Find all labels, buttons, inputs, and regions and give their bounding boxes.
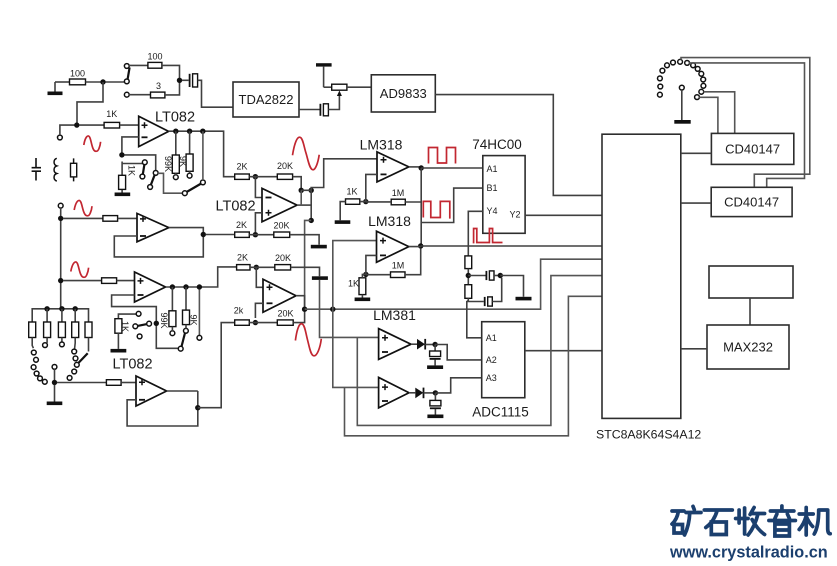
wire LM318-1 out to node F xyxy=(409,166,421,168)
wire SW3 wiper to ground G13 xyxy=(681,90,683,120)
wire row4 2k to 20K xyxy=(249,322,277,324)
switch SW1 contact common xyxy=(124,79,129,84)
wire amp2 feedback loop xyxy=(114,235,203,257)
watermark Chinese title (drawn glyphs) xyxy=(672,506,830,536)
rotary switch SW2 wiper xyxy=(52,365,57,370)
wire N7 to wiper contact xyxy=(124,155,155,171)
capacitor C1 (coupling) xyxy=(190,74,198,87)
wire row4 20K to bus node D xyxy=(293,312,304,323)
wire N18 down to diff2 plus xyxy=(256,267,263,287)
svg-text:2k: 2k xyxy=(234,306,244,316)
svg-text:2K: 2K xyxy=(236,220,247,230)
ground G4 under 1K2 xyxy=(111,333,127,352)
wire N9 to row2 2K xyxy=(206,234,235,236)
capacitor C4 xyxy=(486,271,494,280)
wire N1 down to amp1 input node xyxy=(77,82,103,123)
node M xyxy=(433,390,438,395)
wire J2 down through ch3 to ladder bus xyxy=(60,208,62,309)
switch lever b xyxy=(151,175,155,185)
op-amp LT082 U1B xyxy=(137,213,169,241)
switch contact d4 xyxy=(137,334,142,339)
wire ADC out to MCU xyxy=(525,350,602,352)
resistor 1K (LM318-1) xyxy=(346,187,360,205)
wire N15 to R ch4 xyxy=(57,382,106,384)
switch contact b2 xyxy=(148,185,153,190)
wire SW3 contact to CD40147-2 (inner) xyxy=(689,63,804,187)
resistor chain R-b (vertical) xyxy=(465,285,472,299)
rotary switch SW2 contact r12 xyxy=(72,369,77,374)
svg-text:20K: 20K xyxy=(275,253,291,263)
wire N2 to cap C1 xyxy=(182,79,189,81)
resistor R (input LC) xyxy=(71,158,77,181)
wire bottom contact to R3 xyxy=(129,94,150,96)
wire SW3 contact to CD40147-1 pin b xyxy=(699,97,718,133)
wire 1M2 right up to node H xyxy=(405,248,421,274)
ground G1 top-left xyxy=(48,82,63,95)
svg-text:1M: 1M xyxy=(392,261,405,271)
wire B1 branch xyxy=(421,188,483,222)
node N3 amp1 input xyxy=(74,122,79,127)
svg-text:2K: 2K xyxy=(237,253,248,263)
op-amp LT082 U3A diff1 xyxy=(215,188,297,221)
IC CD40147 #2 xyxy=(711,187,792,216)
node D xyxy=(302,307,307,312)
wire N16 down to diff1 minus xyxy=(255,177,262,198)
IC CD40147 #1 xyxy=(711,133,793,164)
svg-text:99K: 99K xyxy=(163,156,173,172)
resistor 2K row2 xyxy=(235,220,250,237)
op-amp LM381 U7 xyxy=(379,377,409,408)
resistor 2K row1 xyxy=(235,162,250,180)
node N15 xyxy=(52,380,57,385)
rotary switch SW2 contact r2 xyxy=(34,357,39,362)
svg-text:1K: 1K xyxy=(106,109,117,119)
resistor 2k row4 xyxy=(234,306,250,326)
node N5 xyxy=(187,129,192,134)
wire chain node xyxy=(467,269,469,285)
resistor 20K row2 xyxy=(273,221,289,238)
svg-text:20K: 20K xyxy=(273,221,289,231)
svg-text:CD40147: CD40147 xyxy=(725,142,780,157)
resistor 100 (range hi) xyxy=(147,52,162,69)
capacitor C2 (output coupling) xyxy=(320,104,328,116)
wire G7 riser down to LM381-1 plus xyxy=(320,280,379,338)
wire AD9833 to MCU xyxy=(435,95,602,196)
capacitor C7 (electrolytic) xyxy=(430,393,441,415)
rotary switch SW2 lever xyxy=(79,353,88,363)
resistor 1K (amp1 gain, vertical) xyxy=(119,162,137,193)
switch contact d3 xyxy=(147,321,152,326)
switch contact e2 xyxy=(178,346,183,351)
wire amp4 feedback loop xyxy=(127,391,198,426)
ground G2 above pot xyxy=(316,63,332,87)
svg-text:1M: 1M xyxy=(392,188,405,198)
wire N1 to switch common xyxy=(105,81,124,83)
switch contact c2 xyxy=(201,180,206,185)
rotary switch SW2 contact r7 xyxy=(42,379,47,384)
op-amp LM381 U6 xyxy=(373,307,416,359)
glyph kuang xyxy=(672,506,701,535)
ladder bus wire xyxy=(32,309,88,322)
wire connector to MAX232 xyxy=(749,298,751,325)
wire C1 to TDA2822 xyxy=(198,80,233,107)
ground G5 under rotary xyxy=(47,385,63,405)
node K xyxy=(498,273,503,278)
rotary switch SW2 contact r4 xyxy=(34,371,39,376)
rotary switch SW2 contact r13 xyxy=(67,376,72,381)
wire row2 20K to ground G6 xyxy=(290,235,319,245)
ground G7 xyxy=(312,276,328,280)
resistor 1M (LM318-1) xyxy=(366,188,406,205)
switch SW1 contact bottom xyxy=(124,92,129,97)
SECTION-LEFT xyxy=(29,109,237,426)
switch contact a2 xyxy=(140,174,145,179)
op-amp LT082 U2A xyxy=(135,272,166,302)
sine wave ch1 (red) xyxy=(84,136,101,151)
wire R to amp4 + xyxy=(121,382,136,384)
capacitor C6 (electrolytic) xyxy=(430,345,441,366)
ladder resistor LR2 xyxy=(44,309,51,343)
resistor 20K row3 xyxy=(275,253,291,270)
rotary switch SW2 contact r10 xyxy=(73,356,78,361)
svg-text:LM318: LM318 xyxy=(368,213,411,229)
svg-text:LT082: LT082 xyxy=(215,199,255,215)
op-amp LM318 U5 xyxy=(368,213,411,262)
wire C2 to pot wiper arrow xyxy=(328,94,339,110)
wire node E up to LM318-2 plus xyxy=(333,241,377,310)
svg-text:STC8A8K64S4A12: STC8A8K64S4A12 xyxy=(596,428,701,442)
diode D2 xyxy=(409,388,424,399)
square wave A (red) xyxy=(429,148,456,164)
svg-text:1K: 1K xyxy=(127,165,137,176)
wire wiper to lever c xyxy=(158,173,183,193)
wire row1 2K to 20K xyxy=(249,176,277,178)
square wave C (red) xyxy=(473,229,503,243)
resistor chain R-a (vertical) xyxy=(465,256,472,269)
resistor ch3 input xyxy=(102,278,117,284)
rotary switch SW2 contact r1 xyxy=(31,350,36,355)
big sine bottom (red) xyxy=(295,324,321,356)
wire SW3 top contact to CD40147-2 (outer) xyxy=(681,58,810,188)
wire chain bottom to ADC A1 xyxy=(467,298,482,338)
node F xyxy=(419,165,424,170)
wire amp1 minus to feedback node N7 xyxy=(122,137,139,153)
svg-text:1K: 1K xyxy=(346,187,357,197)
svg-text:100: 100 xyxy=(147,52,162,62)
terminal J1 ch1 xyxy=(58,135,63,140)
switch contact a1 xyxy=(142,160,147,165)
wire LM318-2 out to MCU xyxy=(409,245,602,248)
ground G10 xyxy=(516,297,532,301)
resistor 20K row4 xyxy=(277,309,293,326)
node B xyxy=(309,188,314,193)
switch contact f xyxy=(197,335,202,340)
wire R to amp2 + xyxy=(118,217,137,219)
node N18 row3 xyxy=(254,265,259,270)
SECTION-MID xyxy=(215,137,602,436)
wire R100a to node N1 xyxy=(86,81,104,83)
wire 1K left to ground G8 xyxy=(340,202,345,221)
wire LM381-2 net down to bottom wire 2 xyxy=(345,296,603,436)
node N19 row4 xyxy=(253,320,258,325)
wire node B down to node C xyxy=(310,190,312,220)
wire G1 to R100a xyxy=(55,81,69,83)
rotary switch SW3 contacts ring xyxy=(658,59,706,99)
ground G3 under 1K xyxy=(115,193,131,197)
wire node M to ADC A3 xyxy=(435,378,481,393)
wire row2 2K to 20K xyxy=(249,234,273,236)
node H LM318-2 out xyxy=(418,243,423,248)
wire pot to AD9833 xyxy=(347,86,371,88)
node N7 xyxy=(119,152,124,157)
wire LM381-1 net down to bottom wire 1 xyxy=(357,276,602,426)
node N11 xyxy=(170,284,175,289)
svg-text:9K: 9K xyxy=(178,156,188,167)
rotary switch SW3 wiper xyxy=(679,85,684,90)
IC MAX232 xyxy=(707,325,789,369)
capacitor C3 (input LC) xyxy=(32,158,41,181)
svg-text:LT082: LT082 xyxy=(112,357,152,373)
node N1 xyxy=(100,79,105,84)
ground G9 under 1K xyxy=(355,298,371,302)
wire amp4 out to row4 xyxy=(198,323,235,408)
glyph yin xyxy=(769,506,796,536)
wire row1 20K to node A xyxy=(293,177,302,188)
svg-text:9K: 9K xyxy=(189,314,199,325)
SECTION-WM xyxy=(669,506,830,562)
wire 1K top jog xyxy=(122,163,142,165)
wire amp3 output bus xyxy=(166,267,237,287)
sine wave ch2 (red) xyxy=(74,200,92,215)
wire MCU to CD40147-2 xyxy=(681,202,711,204)
svg-text:3: 3 xyxy=(156,81,161,91)
terminal J2 ch2 xyxy=(58,203,63,208)
wire D1 to node L xyxy=(425,344,435,346)
switch contact c1 xyxy=(182,191,187,196)
wire N13 down to contact f xyxy=(198,289,200,335)
svg-text:Y2: Y2 xyxy=(510,210,521,220)
node N6 xyxy=(200,129,205,134)
wire diff1 output xyxy=(297,204,311,206)
resistor ch4 input xyxy=(106,380,121,386)
wire amp2 output xyxy=(169,228,204,233)
inductor L1 (input LC) xyxy=(54,158,57,181)
node N16 row1 xyxy=(253,174,258,179)
resistor 3 (range lo) xyxy=(151,81,165,98)
svg-text:LM318: LM318 xyxy=(360,137,403,153)
wire node J to cap C4 xyxy=(468,275,485,277)
svg-text:LM381: LM381 xyxy=(373,307,416,323)
node N13 xyxy=(197,284,202,289)
node L4 xyxy=(73,306,78,311)
IC STC8A8K64S4A12 MCU xyxy=(596,134,701,441)
resistor 20K row1 xyxy=(277,161,293,179)
wire top contact to R100b xyxy=(129,64,148,66)
wire ground to pot xyxy=(324,86,332,88)
wire MCU to MAX232 xyxy=(681,348,707,350)
wire amp3 feedback loop xyxy=(112,295,179,348)
wire node A-B xyxy=(301,189,311,191)
IC 74HC00 xyxy=(472,137,525,233)
resistor 100 (input) xyxy=(70,69,86,85)
switch lever c xyxy=(187,184,202,193)
node N9 amp2 out xyxy=(201,232,206,237)
wire diff2 out to node D xyxy=(296,296,305,310)
diode D1 xyxy=(411,339,425,350)
wire C4 to node K xyxy=(494,275,500,277)
resistor 1K (amp1 in) xyxy=(104,109,120,128)
SECTION-TOP xyxy=(48,52,603,196)
wire row3 2K to 20K xyxy=(250,266,275,268)
wire node C jog down to bus node D xyxy=(305,220,312,309)
resistor 1K (amp3 gain, vertical) xyxy=(115,314,136,333)
wire node F to 74HC00 A1 xyxy=(421,167,483,169)
wire C5 right up to node K xyxy=(492,278,501,302)
IC ADC1115 xyxy=(472,322,529,420)
wire R3 to node N2 xyxy=(165,83,180,95)
wire contact c2 to output node N6 xyxy=(202,131,204,180)
svg-text:B1: B1 xyxy=(487,183,498,193)
rotary switch SW2 contact r3 xyxy=(31,365,36,370)
ladder resistor LR3 xyxy=(58,309,65,342)
wire node E down to LM381-2 plus xyxy=(333,309,379,387)
node N17 row2 xyxy=(253,232,258,237)
ladder resistor LR5 xyxy=(85,322,92,352)
wire amp1 output bus xyxy=(169,131,235,177)
potentiometer RP1 xyxy=(332,84,347,90)
wire diff2 minus to row4 node xyxy=(255,303,263,318)
wire R to amp3 + xyxy=(117,280,135,282)
wire N3 to R 1K xyxy=(79,124,104,126)
resistor 1K (LM318-2, vertical) xyxy=(348,278,366,298)
svg-text:1K: 1K xyxy=(120,321,130,332)
switch lever e xyxy=(182,333,186,347)
op-amp LT082 U2B xyxy=(112,357,166,407)
glyph shou xyxy=(736,508,765,536)
svg-text:2K: 2K xyxy=(236,162,247,172)
wire J1 to node N3 xyxy=(60,125,75,135)
node L2 xyxy=(44,306,49,311)
switch contact d1 xyxy=(136,311,141,316)
ground G13 xyxy=(674,120,690,124)
wire N8 to R ch2 xyxy=(63,217,103,219)
node I LM318-2 fb xyxy=(363,272,368,277)
node N2 xyxy=(177,78,182,83)
svg-text:100: 100 xyxy=(70,69,85,79)
wire TDA2822 out to C2 xyxy=(299,109,320,111)
IC AD9833 xyxy=(371,75,435,112)
node G LM318-1 fb xyxy=(363,199,368,204)
svg-text:1K: 1K xyxy=(348,279,359,289)
wire R100b to node N2 xyxy=(162,65,180,78)
bus wire D to MCU xyxy=(305,259,602,309)
svg-text:www.crystalradio.cn: www.crystalradio.cn xyxy=(669,544,828,562)
svg-text:74HC00: 74HC00 xyxy=(472,137,522,152)
svg-text:A1: A1 xyxy=(487,164,498,174)
node N4 xyxy=(173,129,178,134)
wire node A down to diff1 out xyxy=(300,190,302,205)
wire amp4 output to row4 xyxy=(167,390,198,392)
svg-text:A2: A2 xyxy=(486,355,497,365)
glyph ji xyxy=(799,508,830,536)
switch contact d2 xyxy=(133,324,138,329)
wire Y4 to resistor chain xyxy=(468,211,483,256)
wire chain to cap C5 xyxy=(467,301,484,303)
wire 1M right up to node F and down to LM318-2 xyxy=(405,168,421,246)
resistor 2K row3 xyxy=(237,253,250,271)
switch contact e1 under 9K xyxy=(184,328,189,333)
switch SW1 contact top xyxy=(124,64,129,69)
wire node I to minus xyxy=(362,255,376,277)
switch lever d xyxy=(138,324,148,326)
wire node K to ground G10 xyxy=(500,276,523,297)
svg-text:TDA2822: TDA2822 xyxy=(239,92,294,107)
resistor 9K (vertical) xyxy=(178,131,193,178)
svg-text:99K: 99K xyxy=(159,312,169,328)
rotary switch SW2 contact r11 xyxy=(74,362,79,367)
wire diff1 plus to row2 node xyxy=(255,213,262,232)
svg-text:ADC1115: ADC1115 xyxy=(472,405,529,420)
ground G12 xyxy=(427,415,443,419)
node C xyxy=(309,218,314,223)
op-amp LM318 U4 xyxy=(360,137,409,182)
ladder resistor LR1 xyxy=(29,322,36,348)
resistor 99K (vertical) xyxy=(163,131,179,179)
capacitor C5 xyxy=(485,297,493,306)
node amp4 out xyxy=(195,405,200,410)
svg-text:A3: A3 xyxy=(486,373,497,383)
ground G6 xyxy=(311,245,327,249)
resistor 99K #2 (vertical) xyxy=(159,287,176,336)
wire node L to ADC A2 xyxy=(435,345,482,360)
pot wiper arrowhead xyxy=(337,91,342,97)
node J xyxy=(466,273,471,278)
op-amp LT082 U3B diff2 xyxy=(263,279,296,312)
wire D2 to node M xyxy=(424,392,436,394)
rotary switch SW2 contact r8 xyxy=(60,342,65,347)
svg-text:MAX232: MAX232 xyxy=(723,340,773,355)
ground G8 xyxy=(335,220,351,224)
wire node B to jog to LM318-1 plus xyxy=(311,159,377,191)
square wave B (red) xyxy=(423,201,450,218)
wire N10 to R ch3 xyxy=(63,280,101,282)
wire 1K to amp1 + xyxy=(120,124,139,126)
svg-text:LT082: LT082 xyxy=(155,110,195,126)
node N10 ch3 xyxy=(58,278,63,283)
switch wiper contact b1 xyxy=(153,171,158,176)
svg-text:AD9833: AD9833 xyxy=(380,86,427,101)
SECTION-RIGHT xyxy=(596,58,810,442)
wire MCU to CD40147-1 xyxy=(681,152,712,154)
switch SW1 lever xyxy=(128,68,130,80)
IC TDA2822 xyxy=(233,82,299,117)
wire node G to minus xyxy=(360,174,377,201)
node N12 xyxy=(183,284,188,289)
ground G11 xyxy=(427,365,443,369)
wire row3 20K to ground G7 riser xyxy=(291,267,320,276)
switch lever a xyxy=(143,164,145,174)
ladder resistor LR4 xyxy=(72,309,79,350)
node L3 xyxy=(59,306,64,311)
node N14 on feedback xyxy=(154,321,159,326)
node L xyxy=(432,342,437,347)
wire SW3 contact to CD40147-1 pin a xyxy=(704,92,735,134)
resistor ch2 input xyxy=(103,216,118,222)
svg-text:20K: 20K xyxy=(277,309,293,319)
op-amp LT082 U1A xyxy=(139,110,195,147)
sine wave ch3 (red) xyxy=(71,262,89,277)
big sine top (red) xyxy=(293,137,320,170)
